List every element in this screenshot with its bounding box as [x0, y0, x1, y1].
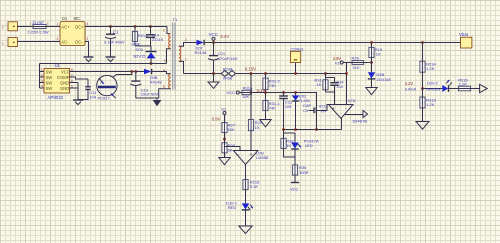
diode D03 clamp — [134, 46, 157, 64]
svg-text:6.15V: 6.15V — [245, 67, 256, 72]
ground (secondary, open triangle) — [208, 74, 219, 89]
node dot C31 tap — [282, 91, 285, 94]
svg-text:300R: 300R — [299, 170, 309, 175]
node dot C9 branch on bus — [315, 128, 318, 131]
svg-text:1: 1 — [163, 29, 165, 33]
port Vbat — [459, 32, 472, 48]
svg-text:4: 4 — [41, 84, 43, 88]
svg-text:B2V15: B2V15 — [134, 53, 147, 58]
svg-text:AP8022: AP8022 — [48, 95, 64, 100]
node dot R19/R26/zener — [370, 61, 373, 64]
svg-text:2: 2 — [57, 37, 59, 41]
resistor R36 300R — [292, 157, 308, 182]
feedback bus line — [284, 129, 342, 131]
resistor R213 1.2K — [420, 89, 437, 122]
svg-text:PC817: PC817 — [98, 95, 111, 100]
node dot TL431 tap — [294, 91, 297, 94]
optocoupler U2 PC817A LED — [291, 133, 319, 157]
svg-text:U7A: U7A — [348, 98, 356, 103]
svg-text:1K: 1K — [286, 143, 291, 148]
node dot CON31 on ground line — [294, 72, 297, 75]
wire R21A/C14 junction — [135, 45, 151, 47]
svg-text:50K: 50K — [228, 127, 235, 132]
svg-text:1: 1 — [57, 22, 59, 26]
resistor R27 50K — [222, 123, 236, 143]
svg-text:CON31: CON31 — [291, 47, 305, 52]
svg-text:SW: SW — [46, 69, 53, 74]
ground (R31-1, open triangle) — [260, 120, 271, 127]
fuse F1 FUSE 0.22R 0.5W — [28, 21, 49, 35]
bridge rectifier D1 MC — [57, 16, 89, 46]
ground (R28, open triangle) — [219, 158, 230, 165]
resistor R26 51K — [352, 55, 372, 70]
resistor R28 5K — [222, 143, 236, 158]
node dot R31 divider mid — [264, 91, 267, 94]
power port VCC (divider) — [227, 90, 240, 95]
net port V1 (divider top) — [212, 106, 227, 122]
svg-text:3.1V: 3.1V — [257, 88, 266, 93]
wire R31/C34 ties — [326, 78, 335, 105]
ground (U1 GND / C11) — [73, 100, 83, 105]
svg-text:LM358: LM358 — [256, 155, 269, 160]
svg-text:DC+: DC+ — [75, 25, 84, 30]
svg-text:5: 5 — [163, 85, 165, 89]
svg-text:3: 3 — [164, 59, 166, 63]
capacitor C34 104 — [330, 78, 344, 93]
svg-text:74K: 74K — [269, 83, 276, 88]
svg-text:FUSE: FUSE — [33, 21, 45, 26]
wire R27/R28 junction to U7B — [225, 139, 241, 151]
svg-text:V1: V1 — [221, 106, 227, 111]
node dot R21A tap — [134, 25, 137, 28]
wire P1 to fuse — [17, 26, 33, 28]
svg-text:GND: GND — [60, 86, 69, 91]
svg-text:1.2K: 1.2K — [459, 82, 468, 87]
svg-text:SW: SW — [46, 86, 53, 91]
zener D2B ZD4148 — [368, 63, 392, 88]
svg-text:5K: 5K — [228, 147, 233, 152]
svg-text:GND: GND — [60, 80, 69, 85]
resistor R19 1K — [369, 43, 383, 63]
wire U1 GND pins to ground — [70, 83, 79, 100]
svg-text:1: 1 — [185, 57, 187, 61]
svg-text:R26: R26 — [352, 55, 360, 60]
svg-text:D20-2: D20-2 — [427, 81, 439, 86]
svg-text:0.1uF 400V: 0.1uF 400V — [104, 39, 125, 44]
resistor R29 1K — [248, 74, 262, 151]
SW drain line — [40, 63, 167, 65]
port arrow (charge status) — [480, 84, 488, 92]
shunt regulator U31 TL431 — [292, 93, 311, 130]
svg-text:R4148: R4148 — [195, 50, 208, 55]
svg-text:MC: MC — [74, 16, 81, 21]
node dot R31/C34 tap on ground line — [324, 72, 327, 75]
ground (aux winding return) — [153, 98, 162, 106]
ground (C1) — [106, 57, 116, 62]
resistor R31-2 74K — [263, 74, 281, 93]
svg-text:Vbat: Vbat — [459, 32, 469, 37]
ground (bridge DC-) — [84, 57, 94, 62]
diode D07 R4148 output rectifier — [195, 40, 208, 55]
svg-text:RED: RED — [228, 205, 237, 210]
wire P2 to bridge AC- — [17, 41, 60, 43]
svg-text:D03: D03 — [136, 47, 144, 52]
svg-text:1N4B7B: 1N4B7B — [352, 119, 367, 124]
svg-text:0R68: 0R68 — [223, 76, 233, 81]
svg-text:U1: U1 — [55, 63, 61, 68]
wire fuse to bridge AC+ — [46, 26, 60, 28]
node dot opto collector on aux line — [130, 70, 133, 73]
svg-text:1.2K: 1.2K — [426, 66, 435, 71]
svg-text:3: 3 — [41, 79, 43, 83]
svg-text:AC+: AC+ — [61, 25, 70, 30]
svg-text:R4148: R4148 — [150, 79, 163, 84]
svg-text:GREEN: GREEN — [426, 86, 440, 91]
svg-text:V1: V1 — [335, 61, 341, 66]
svg-text:4: 4 — [87, 22, 89, 26]
svg-text:2221K: 2221K — [152, 37, 164, 42]
node dot R29 tap — [250, 72, 253, 75]
wire U1 VCC pin to aux line — [70, 71, 145, 73]
capacitor C21 470uF/16V — [208, 43, 238, 74]
svg-text:104: 104 — [89, 94, 96, 99]
optocoupler U2 PC817-B phototransistor — [97, 72, 132, 101]
svg-text:74K: 74K — [269, 105, 276, 110]
svg-text:1: 1 — [30, 21, 32, 25]
svg-text:104: 104 — [336, 84, 343, 89]
ground (D10-1, open triangle) — [239, 226, 252, 234]
svg-text:+: + — [250, 152, 253, 158]
node dot R29 on 3.1V line — [250, 91, 253, 94]
svg-text:C1: C1 — [113, 29, 119, 34]
node dot C1 tap — [109, 25, 112, 28]
svg-text:10K: 10K — [242, 94, 249, 99]
svg-text:0.22R 0.5W: 0.22R 0.5W — [28, 29, 49, 34]
node dot C14 tap — [149, 25, 152, 28]
svg-text:ZD4148: ZD4148 — [376, 77, 391, 82]
resistor R31-1 74K — [263, 93, 281, 120]
node dot R27/R28 junction — [223, 138, 226, 141]
resistor R216 1.2K — [458, 77, 479, 90]
net port V1 (sense) — [333, 56, 352, 104]
svg-text:1K: 1K — [376, 51, 381, 56]
svg-text:104: 104 — [285, 104, 292, 109]
capacitor C13 10uF 50V — [130, 72, 158, 99]
port P1 (AC input L) — [2, 22, 17, 31]
node dot D03 on SW line — [150, 62, 153, 65]
svg-text:COMP: COMP — [57, 75, 70, 80]
port P2 (AC input N) — [2, 38, 17, 47]
wire DC- to ground — [85, 42, 89, 57]
IC U1 AP8022 — [41, 63, 73, 100]
connector CON31 — [290, 47, 304, 74]
wire DC+ to HV rail — [85, 27, 171, 34]
transformer T1 secondary winding — [179, 38, 197, 73]
net label 4.2V 3.0mA — [405, 81, 417, 91]
secondary ground line — [184, 73, 347, 75]
svg-text:1K: 1K — [317, 82, 322, 87]
node dot C21/ground — [212, 72, 215, 75]
transformer T1 core — [173, 17, 178, 90]
svg-text:SW: SW — [46, 80, 53, 85]
resistor R21A 390k — [131, 27, 148, 47]
svg-text:LED: LED — [305, 143, 313, 148]
svg-text:R24A: R24A — [223, 67, 233, 72]
node dot VCC/C21 on rail — [212, 41, 215, 44]
capacitor C31 104 — [279, 93, 293, 134]
svg-text:4: 4 — [163, 68, 165, 72]
capacitor C11 104 — [78, 79, 97, 100]
svg-text:2: 2 — [47, 21, 49, 25]
svg-text:1: 1 — [41, 68, 43, 72]
capacitor C1 0.1uF 400V — [104, 27, 125, 57]
svg-text:C9: C9 — [303, 108, 309, 113]
svg-text:470uF/16V: 470uF/16V — [218, 56, 238, 61]
transformer T1 primary winding — [163, 29, 171, 64]
node dot R214 on rail — [421, 41, 424, 44]
node dot TL431 on bus — [294, 128, 297, 131]
svg-text:VCC: VCC — [61, 69, 70, 74]
node dot bus/C31 leg — [282, 128, 285, 131]
svg-text:T1: T1 — [173, 17, 178, 22]
svg-text:VCC: VCC — [227, 90, 236, 95]
node dot C13 on aux line — [134, 70, 137, 73]
svg-text:1: 1 — [2, 26, 4, 30]
+6.4V rail — [204, 42, 461, 44]
svg-text:D1: D1 — [62, 16, 68, 21]
svg-text:DC-: DC- — [75, 40, 83, 45]
SW bus vertical — [40, 64, 45, 89]
svg-text:+: + — [332, 106, 335, 112]
wire through resistor bodies — [135, 32, 470, 190]
svg-text:AC-: AC- — [61, 40, 69, 45]
power port VCC (rail) — [209, 32, 230, 42]
ground (zener, open triangle) — [366, 88, 377, 95]
svg-text:5.1K: 5.1K — [250, 184, 259, 189]
capacitor C14 2221K — [146, 27, 164, 46]
svg-text:2: 2 — [41, 73, 43, 77]
transformer T1 aux winding — [136, 68, 171, 98]
svg-text:51K: 51K — [353, 65, 360, 70]
svg-text:3.0mA: 3.0mA — [405, 86, 417, 91]
svg-text:Q1: Q1 — [321, 108, 327, 113]
svg-text:2: 2 — [185, 38, 187, 42]
port arrow (U7A output) — [363, 110, 368, 117]
svg-text:VCC: VCC — [290, 187, 299, 192]
svg-text:1K: 1K — [255, 125, 260, 130]
power port VCC (down) — [290, 183, 299, 192]
svg-text:1.2K: 1.2K — [426, 102, 435, 107]
resistor R218 5.1K — [243, 180, 260, 204]
node dot R19 on rail — [370, 41, 373, 44]
op-amp U7A — [319, 98, 368, 129]
op-amp U7B LM358 — [234, 151, 270, 180]
LED D20-2 GREEN — [423, 80, 459, 92]
capacitor C9 CAP — [303, 103, 329, 130]
svg-text:VCC: VCC — [209, 32, 218, 37]
resistor R31A 10K — [239, 85, 253, 98]
svg-text:10uF 50V: 10uF 50V — [141, 92, 159, 97]
node dot V1 vertical on ground line — [345, 72, 348, 75]
resistor R31 1K — [315, 74, 329, 93]
svg-text:SW: SW — [46, 75, 53, 80]
wire U1 COMP pin — [70, 77, 89, 79]
ground (R213, open triangle) — [416, 122, 429, 130]
node dot R31-2 tap — [264, 72, 267, 75]
3.1V sense line — [251, 93, 316, 130]
diode D0B R4148 aux rectifier — [144, 69, 162, 85]
svg-text:1: 1 — [2, 41, 4, 45]
node dot LED branch — [421, 87, 424, 90]
optocoupler LED side R32 parallel — [281, 133, 295, 157]
svg-text:6.4V: 6.4V — [221, 34, 230, 39]
svg-text:0.9V: 0.9V — [212, 116, 221, 121]
resistor R24A 0R68 current sense — [221, 67, 235, 81]
LED D10-1 RED — [226, 201, 253, 226]
resistor R214 1.2K — [420, 43, 437, 89]
svg-text:3: 3 — [87, 37, 89, 41]
